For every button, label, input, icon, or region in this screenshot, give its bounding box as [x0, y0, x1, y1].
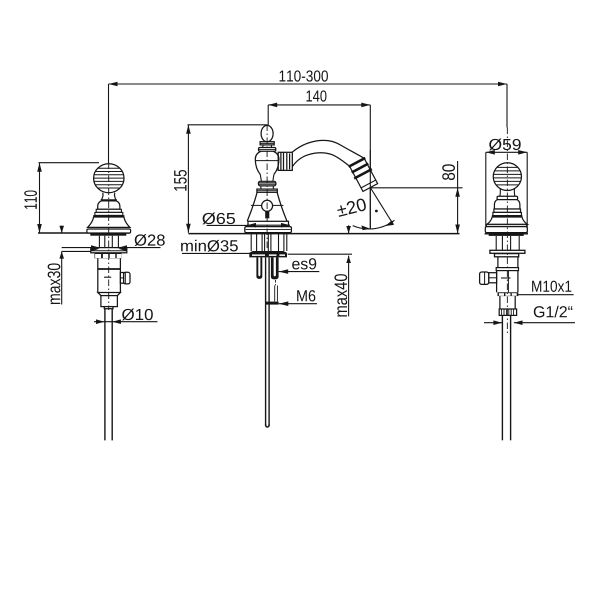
angle dimension ±20 with arc	[336, 188, 394, 231]
central mixer: body bulb	[255, 151, 279, 174]
left valve: flange washer	[91, 248, 127, 253]
right valve: supply tube G1/2	[502, 315, 510, 440]
vertical reference line at spout outlet	[369, 105, 371, 229]
right valve: bell bottom band	[486, 224, 526, 226]
left valve centerline	[108, 163, 110, 311]
central mixer: pop-up knob circle	[262, 200, 273, 211]
right valve: bell ring 1	[494, 209, 521, 212]
label M10x1	[516, 281, 573, 295]
right valve: M10x1 tail	[500, 296, 515, 309]
dimension 155	[174, 125, 267, 233]
right valve: mounting nut bar	[495, 254, 519, 257]
label minØ35	[181, 240, 249, 254]
left valve: bell ring 1	[96, 209, 121, 212]
central mixer: spout tube	[292, 140, 364, 167]
right valve: castellated nut section	[498, 292, 519, 296]
left valve: bell dome	[98, 201, 120, 209]
label G1/2" with arrows at right tube	[484, 306, 575, 325]
dimension 140	[268, 90, 370, 125]
left valve: castellated mounting nut	[95, 253, 122, 258]
central mixer: M6 fitting crossbar	[266, 302, 279, 305]
central mixer: bead ring	[258, 181, 276, 186]
right valve: base skirt	[485, 227, 527, 233]
left valve: bell thick ring line	[93, 215, 124, 217]
central mixer: cone	[247, 192, 287, 221]
right valve: bell flare	[487, 217, 528, 224]
central mixer: washer bar (dark)	[249, 251, 287, 257]
left valve: base rim	[87, 229, 131, 233]
label Ø59 with dimension over right knob	[486, 139, 527, 234]
dimension 110-300	[109, 70, 508, 163]
central mixer: aerator (tilted)	[348, 158, 379, 193]
central mixer: Ø65 arrows redrawn over skirt	[247, 223, 290, 228]
deck line main (center to right valve)	[188, 233, 459, 235]
central mixer: finial collar	[260, 142, 274, 145]
right valve: shank	[498, 257, 518, 268]
left valve: shank body	[98, 258, 121, 292]
left valve: supply tube Ø10	[105, 309, 112, 441]
central mixer: pop-up stem	[265, 211, 269, 218]
central mixer: thin connector tube to M6 fitting	[274, 286, 276, 302]
central mixer: top bead	[259, 148, 276, 152]
central mixer: small neck	[261, 186, 273, 189]
right valve: G1/2 thread collar	[499, 309, 516, 315]
right valve: bell ring 2	[493, 212, 522, 215]
right valve centerline	[506, 128, 508, 336]
label M6	[279, 290, 317, 306]
central mixer: pop-up rod	[266, 257, 270, 427]
right valve: bell dome	[494, 200, 520, 209]
left valve: bell ring 2	[95, 212, 123, 215]
central mixer: spout connection rings	[278, 152, 292, 170]
left valve: bell top thick line	[101, 199, 117, 201]
central mixer centerline	[266, 125, 268, 251]
right valve: collar ring	[496, 268, 518, 271]
deck line left (under left valve)	[38, 232, 130, 234]
dimension max30	[48, 226, 91, 305]
label Ø65 with dimension arrows on skirt	[202, 213, 288, 228]
label Ø28 with arrows at left valve neck	[62, 234, 165, 250]
right valve: ball knob with knurl lines	[492, 163, 523, 191]
vertical reference line over aerator (redrawn on top)	[369, 150, 371, 229]
central mixer: lower neck	[260, 175, 274, 182]
central mixer: right mounting stud	[271, 257, 279, 279]
left valve: side outlet (right)	[120, 272, 130, 284]
right valve: valve body	[497, 271, 518, 293]
dimension max40	[288, 225, 352, 316]
left valve: bell flare	[88, 217, 130, 227]
left valve: threaded neck below deck	[99, 236, 118, 248]
right valve: dark under-lip	[489, 233, 524, 236]
central mixer: below-deck shank lines	[251, 234, 287, 251]
left valve: taper band and lower collar	[98, 293, 121, 309]
label Ø10 with arrows at left tube	[94, 309, 158, 324]
dimension 110 (left valve height)	[24, 163, 99, 233]
left valve: dark under-lip	[90, 233, 126, 236]
central mixer: skirt upper band	[248, 221, 289, 226]
right valve: side outlet (left)	[480, 272, 497, 284]
right valve: bell thick ring line	[492, 215, 523, 217]
left valve: ball knob with knurl lines	[92, 164, 126, 193]
central mixer: skirt lower band	[245, 227, 292, 233]
central mixer: left mounting stud	[256, 257, 262, 279]
label es9	[279, 258, 320, 274]
Ø28 dimension arrows over flange	[91, 246, 127, 251]
right valve: flange washer	[490, 250, 525, 253]
central mixer: finial egg	[261, 125, 273, 141]
right valve: threaded neck below deck	[496, 236, 519, 250]
dimension 80	[371, 161, 463, 234]
left valve: knob neck	[101, 193, 116, 200]
right valve: knob neck and bead	[500, 189, 515, 196]
central mixer: collar step	[257, 189, 277, 192]
central mixer: neck	[263, 145, 272, 148]
